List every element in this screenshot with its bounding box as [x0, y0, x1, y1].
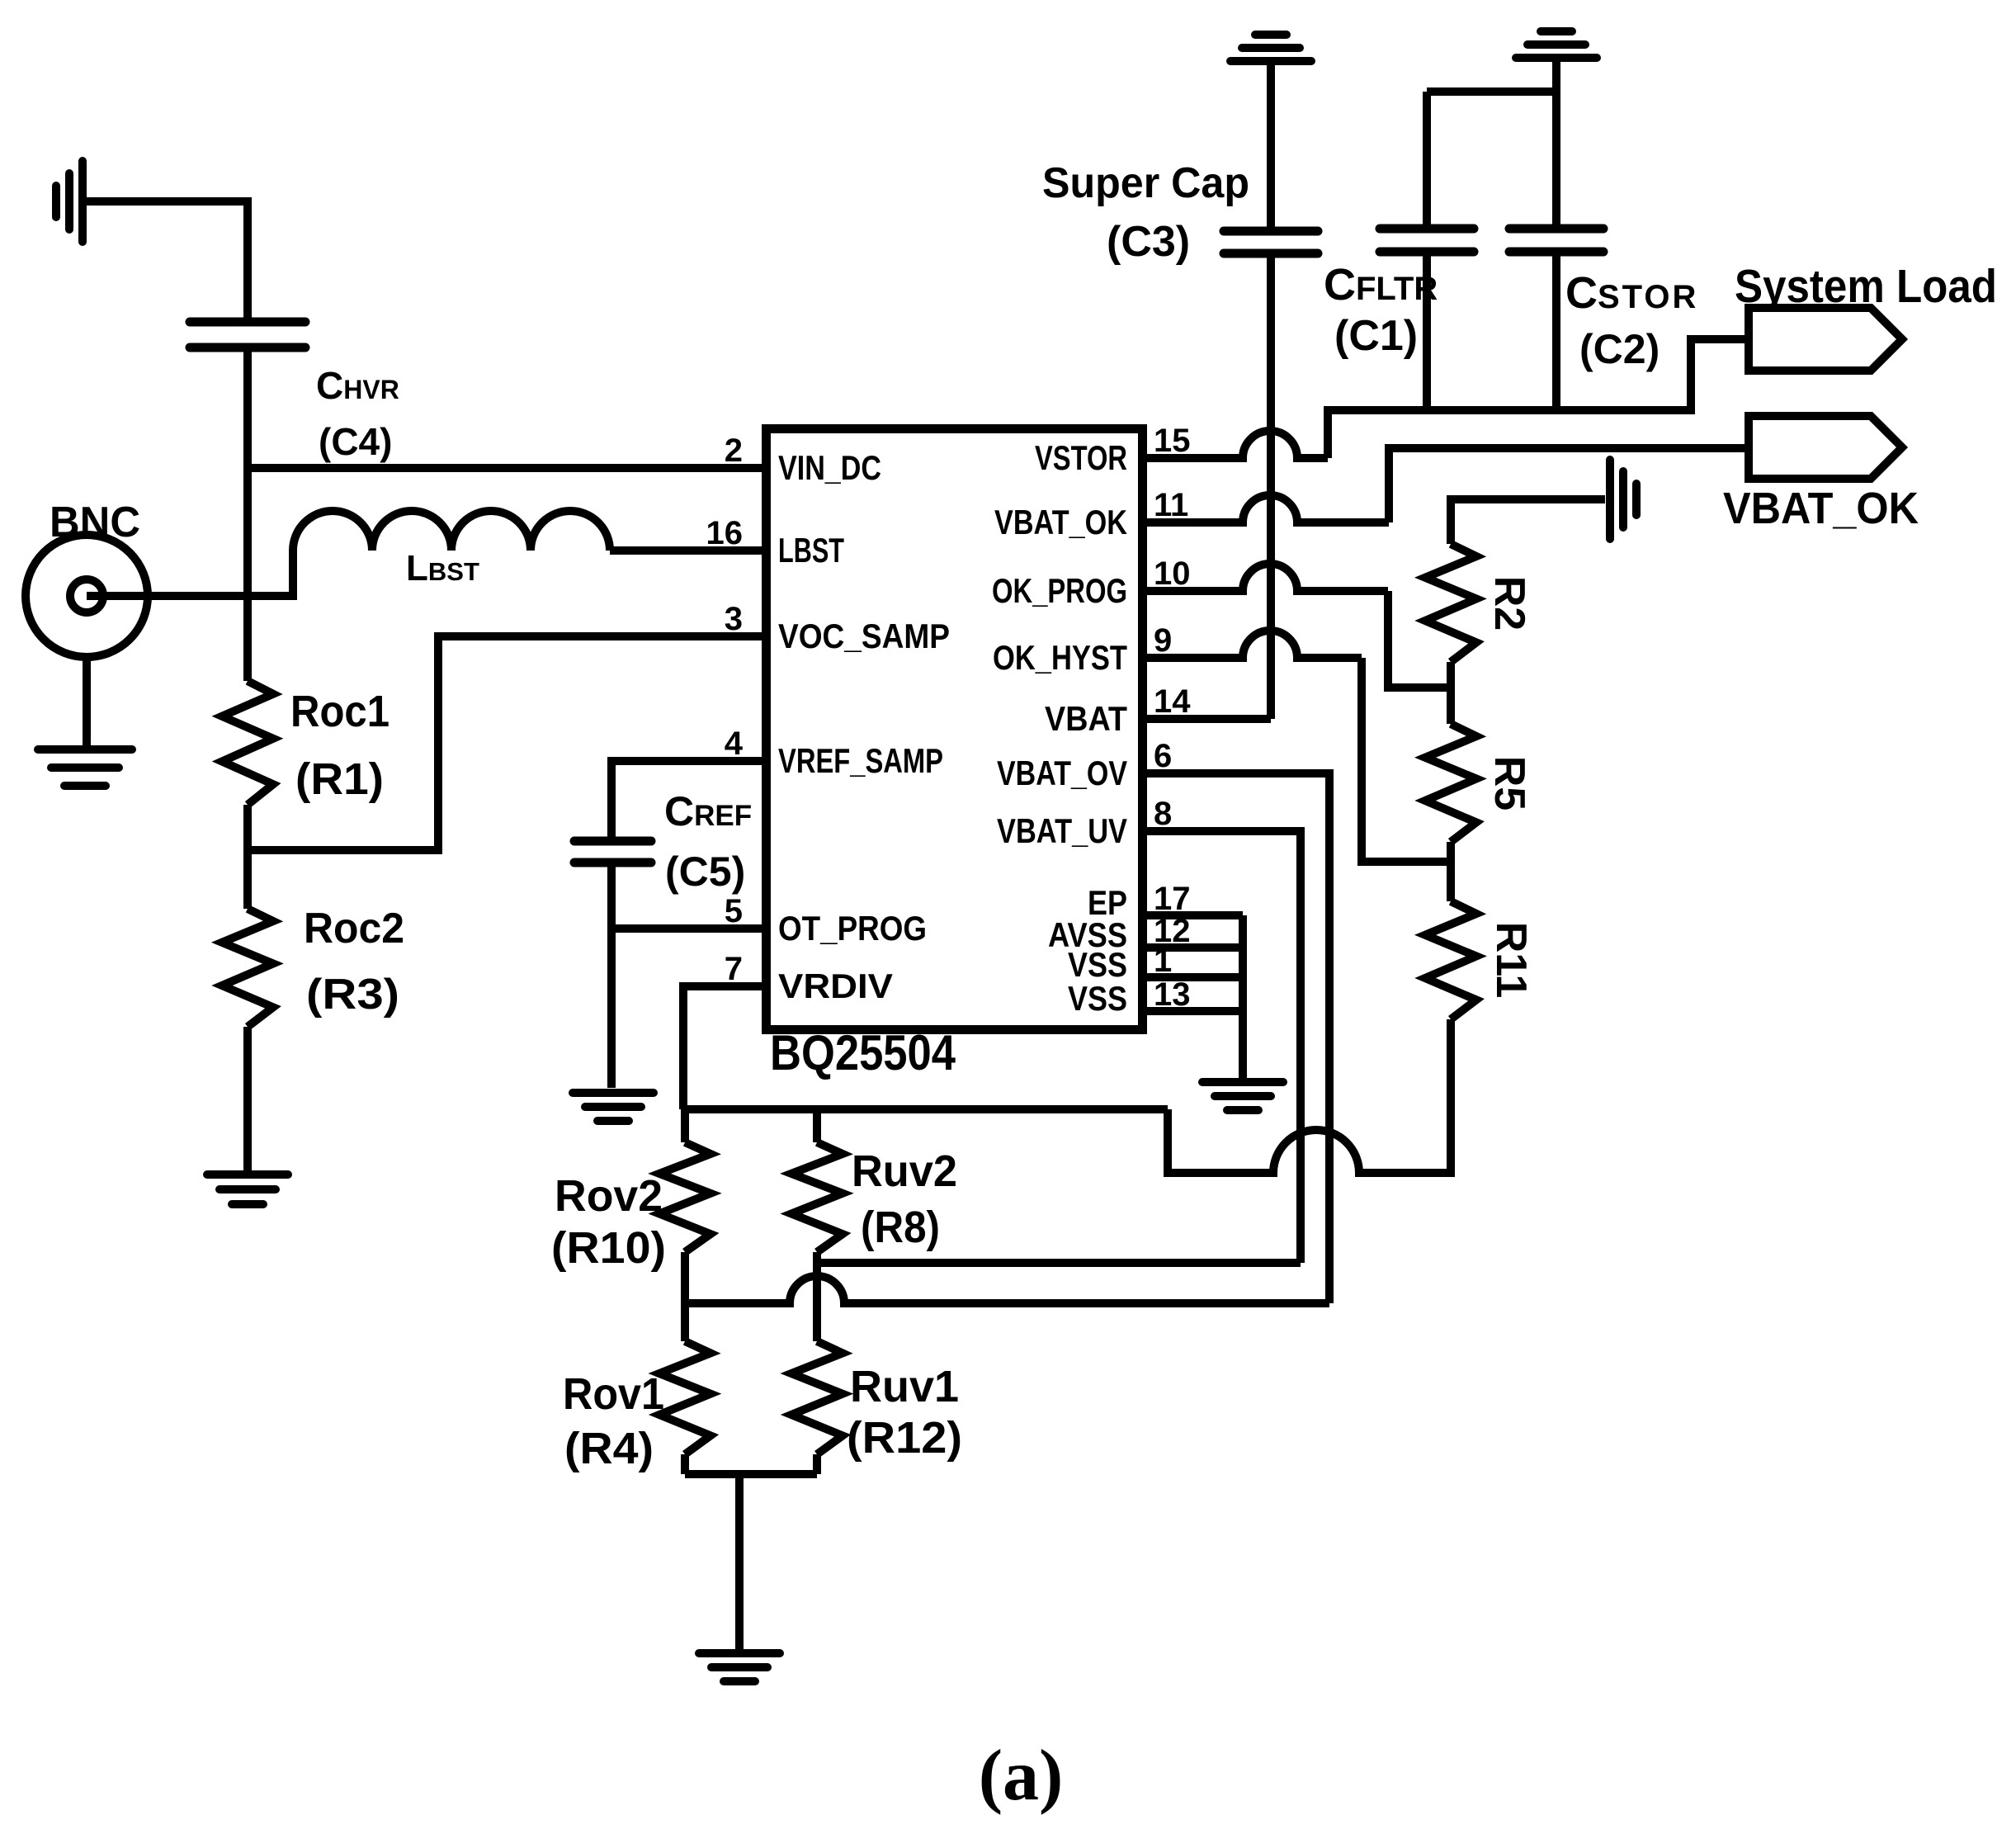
svg-text:LBST: LBST	[778, 531, 844, 570]
svg-text:R11: R11	[1487, 922, 1535, 999]
label Rov1	[563, 1369, 664, 1419]
svg-text:Ruv2: Ruv2	[852, 1146, 957, 1196]
wire GND1 to CHVR top	[85, 201, 248, 322]
wire VBAT pin 14	[1142, 715, 1271, 723]
wire EP pin 17	[1142, 911, 1243, 919]
svg-text:(R3): (R3)	[306, 971, 399, 1019]
pin number 5	[725, 893, 743, 929]
pin number 12	[1154, 913, 1191, 949]
pin number 11	[1154, 487, 1188, 523]
svg-text:6: 6	[1154, 738, 1172, 774]
label (R12)	[847, 1413, 962, 1463]
svg-text:10: 10	[1154, 555, 1191, 592]
svg-text:7: 7	[725, 951, 743, 987]
ground GND3 (below Roc2)	[207, 1175, 288, 1204]
label CSTOR	[1565, 268, 1698, 318]
svg-text:BNC: BNC	[50, 499, 140, 546]
wire GND5 to C3	[1267, 61, 1275, 231]
svg-text:(C2): (C2)	[1579, 326, 1660, 372]
svg-text:BQ25504: BQ25504	[770, 1025, 956, 1080]
svg-text:11: 11	[1154, 487, 1188, 523]
wire C3 bottom to VBAT node	[1267, 253, 1275, 719]
ground GND5 (above Super Cap C3, flipped)	[1230, 35, 1311, 61]
wire VBAT_OV pin 6 down	[1142, 773, 1329, 1303]
label CHVR	[316, 364, 399, 407]
wire VBAT_UV to Ruv divider	[817, 1259, 1301, 1267]
wire node VIN_DC to pin 2	[248, 464, 762, 472]
svg-text:VSTOR: VSTOR	[1035, 438, 1127, 477]
pin label AVSS (12)	[1048, 915, 1127, 954]
node VBAT_OK arrow	[1749, 416, 1902, 479]
pin label VRDIV	[778, 967, 893, 1005]
resistor Rov2 (R10)	[659, 1142, 711, 1252]
pin number 1	[1154, 943, 1172, 979]
svg-text:4: 4	[725, 726, 744, 762]
connector BNC center pin	[70, 579, 103, 612]
pin number 13	[1154, 976, 1191, 1013]
pin label VSS (1)	[1068, 945, 1127, 984]
wire BNC to inductor	[87, 551, 293, 596]
wire Ruv2 top lead	[813, 1109, 821, 1142]
label (C5)	[665, 848, 745, 895]
svg-text:Rov1: Rov1	[563, 1369, 664, 1419]
ground GND9 (bottom)	[699, 1653, 780, 1681]
svg-text:15: 15	[1154, 423, 1191, 459]
wire VBAT_OV to Rov divider with hop over Ruv lead	[685, 1276, 1329, 1303]
pin number 8	[1154, 796, 1172, 832]
pin number 7	[725, 951, 743, 987]
pin label VBAT_UV	[997, 811, 1127, 850]
label Roc1	[290, 687, 390, 736]
label Rov2	[555, 1171, 663, 1221]
capacitor CHVR (C4)	[190, 322, 305, 347]
wire C1 top lead	[1423, 92, 1431, 229]
svg-text:OK_HYST: OK_HYST	[993, 638, 1127, 677]
pin number 15	[1154, 423, 1191, 459]
wire VREF_SAMP pin 4 to CREF	[611, 761, 762, 841]
pin number 9	[1154, 622, 1172, 659]
svg-text:VSS: VSS	[1068, 945, 1127, 984]
label BNC	[50, 499, 140, 546]
resistor R11	[1425, 901, 1476, 1019]
pin label VBAT_OK	[994, 503, 1127, 541]
resistor Ruv1 (R12)	[791, 1341, 843, 1454]
wire VSS bus down	[1239, 915, 1247, 1079]
resistor R5	[1425, 724, 1476, 842]
wire Roc1 to Roc2 node	[243, 805, 252, 909]
label VBAT_OK	[1723, 484, 1919, 533]
pin label OK_PROG	[992, 571, 1127, 610]
label (R3)	[306, 971, 399, 1019]
connector BNC outer	[26, 535, 148, 657]
pin label LBST	[778, 531, 844, 570]
svg-text:VRDIV: VRDIV	[778, 967, 893, 1005]
svg-text:16: 16	[706, 515, 744, 551]
wire VOC_SAMP node to pin 3	[248, 636, 762, 850]
svg-text:R2: R2	[1485, 576, 1533, 631]
ground GND2 (below BNC)	[38, 749, 132, 786]
svg-text:VBAT_UV: VBAT_UV	[997, 811, 1127, 850]
pin label EP (17)	[1088, 883, 1127, 922]
wire Rov2 top lead	[681, 1109, 689, 1142]
wire VSS pin 1	[1142, 973, 1243, 981]
svg-text:R5: R5	[1485, 756, 1533, 811]
svg-text:(a): (a)	[979, 1736, 1064, 1816]
pin number 10	[1154, 555, 1191, 592]
wire VSS pin 13	[1142, 1007, 1243, 1015]
svg-text:14: 14	[1154, 683, 1191, 720]
pin label VIN_DC	[778, 448, 881, 487]
wire OT_PROG pin 5 to CREF bottom	[611, 924, 762, 933]
pin label OK_HYST	[993, 638, 1127, 677]
capacitor CFLTR (C1)	[1380, 229, 1474, 252]
node System Load arrow	[1749, 308, 1902, 371]
ground GND1 (input, left-pointing)	[56, 161, 83, 242]
svg-text:(C1): (C1)	[1334, 312, 1418, 360]
label (R8)	[861, 1203, 940, 1252]
svg-text:VBAT: VBAT	[1045, 699, 1127, 738]
ground GND6 (above CSTOR C2, flipped)	[1516, 31, 1597, 58]
label Roc2	[304, 905, 404, 952]
wire R11 bottom to VRDIV rail with hop	[1168, 1019, 1451, 1173]
svg-text:(R4): (R4)	[564, 1424, 654, 1473]
pin label VBAT_OV	[997, 754, 1127, 792]
pin number 2	[725, 433, 743, 469]
wire AVSS pin 12	[1142, 943, 1243, 952]
label R5	[1485, 756, 1533, 811]
svg-text:OT_PROG: OT_PROG	[778, 909, 927, 948]
svg-text:(R1): (R1)	[295, 754, 384, 804]
resistor Rov1 (R4)	[659, 1341, 711, 1454]
svg-text:8: 8	[1154, 796, 1172, 832]
label BQ25504	[770, 1025, 956, 1080]
pin label VOC_SAMP	[778, 617, 950, 655]
wire Ruv2 to Ruv1	[813, 1252, 821, 1341]
capacitor Super Cap C3	[1224, 231, 1318, 253]
svg-text:Roc2: Roc2	[304, 905, 404, 952]
svg-text:(R10): (R10)	[551, 1223, 666, 1273]
capacitor CREF (C5)	[574, 841, 651, 863]
wire VSTOR rail to System Load	[1328, 339, 1749, 458]
pin number 3	[725, 601, 743, 637]
wire C1 bottom lead	[1423, 252, 1431, 406]
resistor Roc1 (R1)	[222, 681, 273, 805]
ground GND4 (below CREF)	[573, 1093, 654, 1121]
svg-text:3: 3	[725, 601, 743, 637]
wire R5-R11 junction	[1447, 842, 1455, 901]
pin number 16	[706, 515, 744, 551]
wire Roc2 to ground	[243, 1027, 252, 1170]
label (C3)	[1107, 218, 1190, 266]
svg-text:Roc1: Roc1	[290, 687, 390, 736]
label Super Cap	[1042, 159, 1249, 207]
wire R2 top to ground	[1451, 499, 1605, 544]
svg-text:2: 2	[725, 433, 743, 469]
svg-text:(C3): (C3)	[1107, 218, 1190, 266]
pin label VREF_SAMP	[778, 741, 943, 780]
label (C2)	[1579, 326, 1660, 372]
label Ruv2	[852, 1146, 957, 1196]
label CFLTR	[1324, 260, 1438, 310]
svg-text:VBAT_OK: VBAT_OK	[1723, 484, 1919, 533]
label (C1)	[1334, 312, 1418, 360]
wire OK_PROG pin 10 with hop over C3	[1142, 564, 1388, 591]
wire VBAT_OK to arrow	[1389, 448, 1749, 522]
wire R2-R5 junction	[1447, 662, 1455, 724]
ground GND8 (below VSS bus)	[1202, 1082, 1283, 1110]
wire VRDIV rail	[683, 1105, 1168, 1113]
svg-text:Super Cap: Super Cap	[1042, 159, 1249, 207]
label (R4)	[564, 1424, 654, 1473]
svg-text:5: 5	[725, 893, 743, 929]
wire VBAT_OK pin 11 with hop over C3	[1142, 495, 1389, 522]
label (R1)	[295, 754, 384, 804]
svg-text:(R8): (R8)	[861, 1203, 940, 1252]
label (R10)	[551, 1223, 666, 1273]
wire Rov2 to Rov1	[681, 1252, 689, 1341]
wire OK_HYST down to R5/R11 node	[1362, 658, 1451, 862]
wire bottom rail	[685, 1454, 817, 1474]
svg-text:VSS: VSS	[1068, 979, 1127, 1018]
wire CHVR bottom down to Roc1	[243, 347, 252, 681]
label R11	[1487, 922, 1535, 999]
wire C1-C2 top rail	[1427, 87, 1556, 96]
label R2	[1485, 576, 1533, 631]
label CREF	[664, 788, 752, 834]
pin number 14	[1154, 683, 1191, 720]
wire BNC stem to ground	[83, 657, 91, 745]
wire OK_HYST pin 9 with hop over C3	[1142, 631, 1362, 658]
pin label VBAT	[1045, 699, 1127, 738]
svg-text:VREF_SAMP: VREF_SAMP	[778, 741, 943, 780]
pin number 17	[1154, 881, 1191, 917]
wire CREF bottom to ground	[607, 863, 616, 1088]
pin label VSS (13)	[1068, 979, 1127, 1018]
wire C2 bottom lead	[1552, 252, 1560, 406]
svg-text:VOC_SAMP: VOC_SAMP	[778, 617, 950, 655]
wire OK_PROG down to R2/R5 node	[1388, 591, 1451, 688]
svg-text:(C4): (C4)	[319, 420, 392, 463]
IC U1 BQ25504 body	[767, 429, 1143, 1030]
wire GND6 to C2 top	[1552, 58, 1560, 229]
svg-text:VBAT_OK: VBAT_OK	[994, 503, 1127, 541]
svg-text:Rov2: Rov2	[555, 1171, 663, 1221]
wire VBAT_UV pin 8 down	[1142, 831, 1301, 1263]
resistor R2	[1425, 544, 1476, 662]
pin number 4	[725, 726, 744, 762]
wire VSTOR pin 15 with hop over C3	[1142, 431, 1328, 458]
wire LBST to pin 16	[610, 546, 762, 555]
label System Load	[1735, 260, 1997, 313]
pin number 6	[1154, 738, 1172, 774]
svg-text:(C5): (C5)	[665, 848, 745, 895]
svg-text:(R12): (R12)	[847, 1413, 962, 1463]
ground GND7 (right of R2 top, right-pointing)	[1610, 460, 1636, 539]
caption (a)	[979, 1736, 1064, 1816]
label LBST	[406, 548, 479, 588]
inductor LBST	[293, 511, 610, 551]
pin label VSTOR	[1035, 438, 1127, 477]
wire ground stem	[735, 1474, 744, 1649]
svg-text:System Load: System Load	[1735, 260, 1997, 313]
svg-text:OK_PROG: OK_PROG	[992, 571, 1127, 610]
resistor Roc2 (R3)	[222, 909, 273, 1027]
resistor Ruv2 (R8)	[791, 1142, 843, 1252]
svg-text:Ruv1: Ruv1	[850, 1362, 959, 1411]
capacitor CSTOR (C2)	[1509, 229, 1603, 252]
label Ruv1	[850, 1362, 959, 1411]
wire VRDIV pin 7 to rail	[683, 986, 762, 1109]
label (C4)	[319, 420, 392, 463]
pin label OT_PROG	[778, 909, 927, 948]
svg-text:VIN_DC: VIN_DC	[778, 448, 881, 487]
svg-text:9: 9	[1154, 622, 1172, 659]
svg-text:VBAT_OV: VBAT_OV	[997, 754, 1127, 792]
